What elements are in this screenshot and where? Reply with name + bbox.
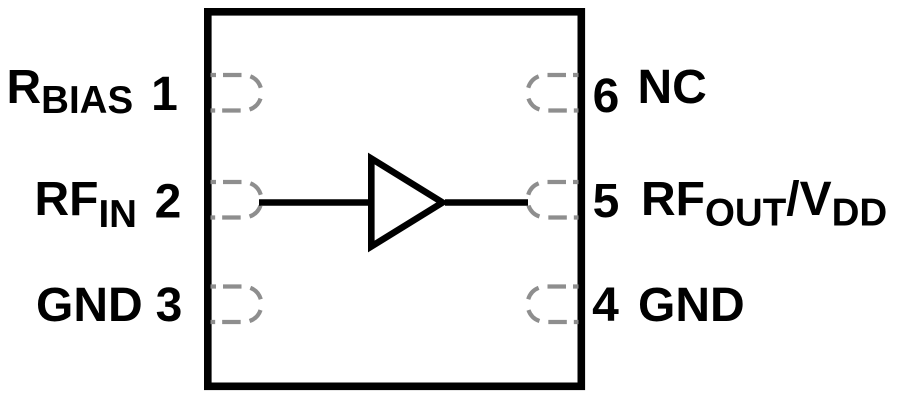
IC package body U1 xyxy=(208,12,582,387)
svg-text:RBIAS: RBIAS xyxy=(7,61,134,122)
wire from amplifier output to pin 5 xyxy=(445,199,528,206)
svg-text:GND: GND xyxy=(36,279,143,332)
pin 3 pad (dashed) xyxy=(211,287,262,323)
pin 5 pad (dashed) xyxy=(528,182,579,218)
svg-text:5: 5 xyxy=(593,175,620,228)
svg-text:1: 1 xyxy=(151,68,178,121)
pin 1 pad (dashed) xyxy=(211,75,262,111)
svg-text:2: 2 xyxy=(155,176,182,229)
svg-text:GND: GND xyxy=(638,279,745,332)
svg-text:6: 6 xyxy=(593,70,620,123)
pin 6 pad (dashed) xyxy=(528,75,579,111)
amplifier A1 (triangle) xyxy=(371,159,442,247)
pin 4 pad (dashed) xyxy=(528,287,579,323)
svg-text:RFOUT/VDD: RFOUT/VDD xyxy=(641,173,887,235)
svg-text:4: 4 xyxy=(592,279,619,332)
svg-text:RFIN: RFIN xyxy=(35,173,137,236)
pin 2 pad (dashed) xyxy=(211,182,262,218)
svg-text:3: 3 xyxy=(156,279,183,332)
svg-text:NC: NC xyxy=(638,61,707,114)
wire from pin 2 to amplifier input xyxy=(259,199,372,206)
